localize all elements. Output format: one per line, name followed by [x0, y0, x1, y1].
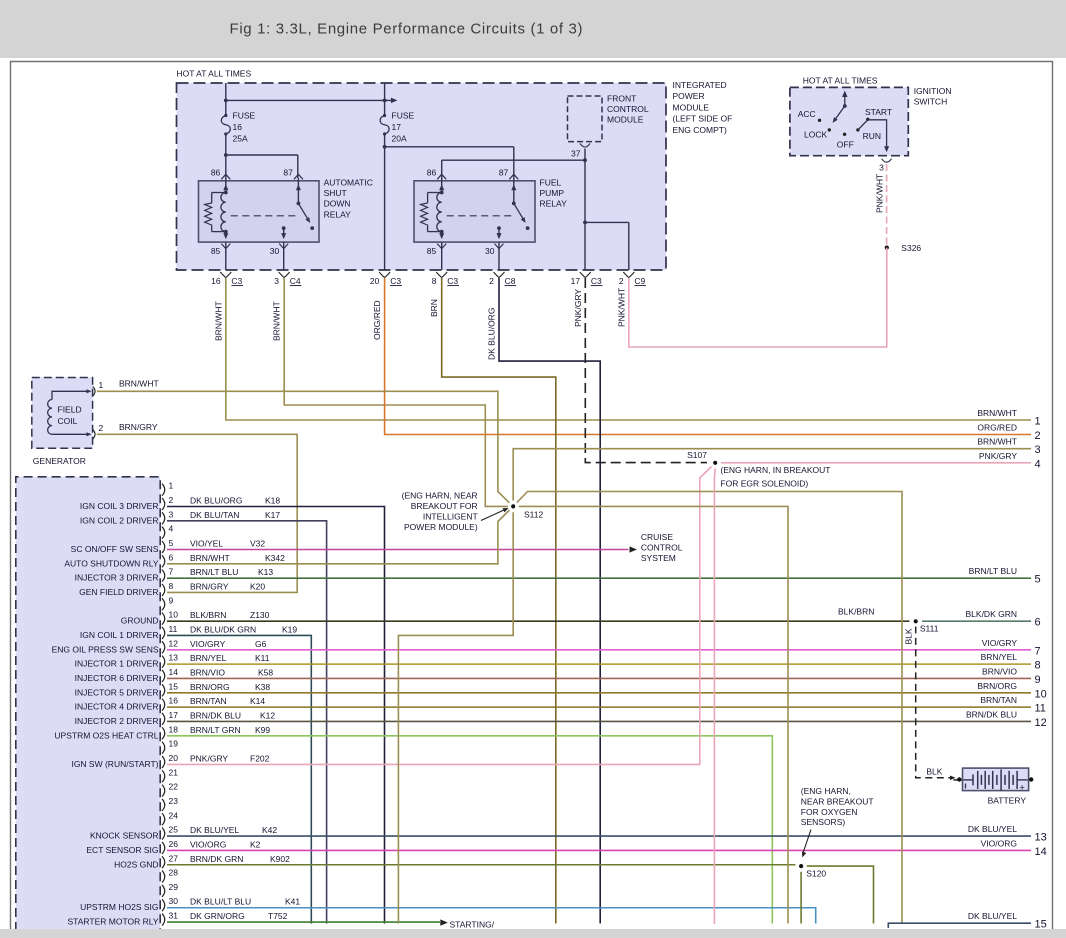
svg-text:K17: K17 [265, 510, 280, 520]
svg-text:ENG COMPT): ENG COMPT) [673, 125, 727, 135]
wire BRN/YEL PCM pin 13 to right edge row 8 [167, 663, 1031, 665]
svg-text:BRN/WHT: BRN/WHT [213, 301, 223, 341]
svg-text:7: 7 [169, 567, 174, 577]
svg-text:15: 15 [1035, 919, 1047, 931]
IPM pin 2 C8 [494, 272, 500, 278]
splice S120 [796, 861, 807, 872]
svg-text:15: 15 [169, 681, 179, 691]
svg-text:DK GRN/ORG: DK GRN/ORG [190, 911, 245, 921]
svg-text:14: 14 [169, 667, 179, 677]
wire S112 south branch down off page [398, 512, 513, 923]
svg-text:V32: V32 [250, 538, 265, 548]
svg-text:5: 5 [1035, 574, 1041, 586]
svg-text:4: 4 [1035, 458, 1041, 470]
svg-text:MODULE: MODULE [607, 115, 644, 125]
svg-text:Fig 1: 3.3L, Engine Performanc: Fig 1: 3.3L, Engine Performance Circuits… [230, 21, 584, 38]
wire VIO/GRY PCM pin 12 to right edge row 7 [167, 649, 1031, 651]
fuse 17 20A [383, 114, 386, 117]
svg-text:C3: C3 [231, 276, 242, 286]
svg-text:CONTROL: CONTROL [641, 543, 683, 553]
svg-text:FUSE: FUSE [233, 111, 256, 121]
header bar [0, 0, 1066, 58]
svg-text:GEN FIELD DRIVER: GEN FIELD DRIVER [79, 587, 158, 597]
svg-text:8: 8 [1035, 660, 1041, 672]
svg-text:25: 25 [169, 825, 179, 835]
PCM pin 5 [162, 541, 165, 553]
wire BLK/BRN PCM pin 10 to S111 [167, 620, 910, 622]
svg-text:AUTOMATIC: AUTOMATIC [324, 178, 373, 188]
wire S112 east branch down off page [519, 506, 788, 923]
powertrain control module box [16, 477, 160, 938]
svg-text:COIL: COIL [58, 416, 78, 426]
IPM pin 2 C9 [623, 272, 629, 278]
svg-text:16: 16 [211, 276, 221, 286]
svg-text:K41: K41 [285, 897, 300, 907]
wire BRN/ORG PCM pin 15 to right edge row 10 [167, 692, 1031, 694]
wire BRN/GRY generator pin 2 to PCM pin 8 [97, 434, 297, 592]
wire BRN/VIO PCM pin 14 to right edge row 9 [167, 677, 1031, 679]
wire BRN/DK BLU PCM pin 17 to right edge row 12 [167, 720, 1031, 722]
svg-text:BRN/TAN: BRN/TAN [190, 696, 227, 706]
svg-text:BRN/WHT: BRN/WHT [977, 408, 1017, 418]
svg-text:23: 23 [169, 796, 179, 806]
svg-text:2: 2 [619, 276, 624, 286]
PCM pin 11 [162, 627, 165, 639]
wire VIO/ORG PCM pin 26 to right edge row 14 [167, 849, 1031, 851]
ignition feed arrow [844, 94, 846, 106]
wire DK BLU/ORG from IPM 2 C8 down off page [499, 278, 600, 924]
svg-text:RELAY: RELAY [540, 199, 568, 209]
PCM pin 8 [162, 584, 165, 596]
svg-text:BRN/GRY: BRN/GRY [119, 422, 158, 432]
splice S107 [710, 458, 721, 469]
svg-text:LOCK: LOCK [804, 129, 827, 139]
svg-text:3: 3 [1035, 444, 1041, 456]
branch fuse16 to ASD relay 87 [226, 154, 298, 156]
svg-text:STARTING/: STARTING/ [450, 920, 495, 930]
svg-text:IGNITION: IGNITION [914, 86, 952, 96]
svg-text:SWITCH: SWITCH [914, 97, 948, 107]
svg-text:INJECTOR 2 DRIVER: INJECTOR 2 DRIVER [75, 716, 159, 726]
svg-text:INJECTOR 4 DRIVER: INJECTOR 4 DRIVER [75, 702, 159, 712]
wire BRN/WHT PCM pin 6 to S112 [167, 508, 512, 564]
svg-text:BRN/DK GRN: BRN/DK GRN [190, 854, 243, 864]
svg-text:85: 85 [211, 246, 221, 256]
svg-text:BRN/DK BLU: BRN/DK BLU [190, 710, 241, 720]
wire BRN/DK GRN PCM pin 27 to S120 [167, 864, 796, 866]
svg-text:S120: S120 [806, 868, 826, 878]
svg-text:19: 19 [169, 739, 179, 749]
wire S112 up to right edge row 3 [513, 449, 1031, 501]
ACC position [818, 119, 821, 122]
RUN position [856, 128, 859, 131]
IPM feed wire to fuse 17 [384, 83, 386, 116]
PCM pin 13 [162, 656, 165, 668]
svg-text:2: 2 [99, 423, 104, 433]
svg-text:IGN SW (RUN/START): IGN SW (RUN/START) [71, 759, 158, 769]
svg-text:28: 28 [169, 868, 179, 878]
PCM pin 28 [162, 871, 165, 883]
IPM pin 8 C3 [436, 272, 442, 278]
svg-text:8: 8 [169, 581, 174, 591]
PCM pin 4 [162, 527, 165, 539]
svg-text:K13: K13 [258, 567, 273, 577]
splice S326 [885, 246, 889, 250]
svg-text:IGN COIL 2 DRIVER: IGN COIL 2 DRIVER [80, 515, 159, 525]
svg-text:FOR OXYGEN: FOR OXYGEN [801, 807, 858, 817]
wire BRN/LT BLU PCM pin 7 to right edge row 5 [167, 577, 1031, 579]
svg-text:13: 13 [1035, 832, 1047, 844]
svg-text:BRN/ORG: BRN/ORG [190, 682, 230, 692]
svg-text:K42: K42 [262, 825, 277, 835]
svg-text:MODULE: MODULE [673, 102, 710, 112]
svg-text:(LEFT SIDE OF: (LEFT SIDE OF [673, 114, 733, 124]
wire DK BLU/YEL PCM pin 25 to right edge row 13 [167, 835, 1031, 837]
svg-text:ORG/RED: ORG/RED [977, 423, 1017, 433]
svg-text:BRN/VIO: BRN/VIO [982, 666, 1017, 676]
svg-text:GENERATOR: GENERATOR [33, 456, 86, 466]
svg-text:86: 86 [211, 168, 221, 178]
svg-text:8: 8 [432, 276, 437, 286]
svg-text:ACC: ACC [798, 109, 816, 119]
svg-text:KNOCK SENSOR: KNOCK SENSOR [90, 831, 159, 841]
svg-text:AUTO SHUTDOWN RLY: AUTO SHUTDOWN RLY [64, 558, 158, 568]
svg-text:S326: S326 [901, 243, 921, 253]
svg-text:FIELD: FIELD [58, 405, 82, 415]
svg-text:K902: K902 [270, 854, 290, 864]
svg-text:BRN/YEL: BRN/YEL [190, 653, 227, 663]
wire PNK/GRY S107 south branch down off page [713, 469, 716, 925]
svg-text:2: 2 [1035, 430, 1041, 442]
PCM pin 29 [162, 885, 165, 897]
wire fuse17 down to pin 20 C3 [384, 134, 386, 270]
svg-text:BATTERY: BATTERY [988, 796, 1027, 806]
svg-text:27: 27 [169, 853, 179, 863]
svg-text:C3: C3 [390, 276, 401, 286]
svg-text:29: 29 [169, 882, 179, 892]
svg-text:BLK: BLK [926, 767, 942, 777]
svg-text:K14: K14 [250, 696, 265, 706]
svg-text:9: 9 [1035, 674, 1041, 686]
svg-text:UPSTRM O2S HEAT CTRL: UPSTRM O2S HEAT CTRL [54, 730, 158, 740]
svg-text:BLK: BLK [904, 628, 914, 644]
ignition pin 3 [882, 159, 892, 163]
svg-text:25A: 25A [233, 134, 248, 144]
svg-text:(ENG HARN,: (ENG HARN, [801, 786, 851, 796]
svg-text:37: 37 [571, 149, 581, 159]
automatic shut down relay [199, 181, 320, 242]
svg-text:ENG OIL PRESS SW SENS: ENG OIL PRESS SW SENS [52, 644, 159, 654]
wire BRN/WHT generator pin 1 to S112 [97, 391, 512, 505]
svg-text:BLK/BRN: BLK/BRN [190, 610, 226, 620]
wire BLK/DK GRN S111 to right edge row 6 [922, 620, 1031, 622]
PCM pin 19 [162, 742, 165, 754]
svg-text:16: 16 [233, 122, 243, 132]
svg-text:31: 31 [169, 911, 179, 921]
svg-text:PNK/WHT: PNK/WHT [875, 174, 885, 213]
PCM pin 1 [162, 484, 165, 496]
svg-text:INJECTOR 1 DRIVER: INJECTOR 1 DRIVER [75, 659, 159, 669]
PCM pin 20 [162, 756, 165, 768]
PCM pin 3 [162, 512, 165, 524]
svg-text:DOWN: DOWN [324, 199, 351, 209]
svg-text:G6: G6 [255, 639, 267, 649]
svg-text:IGN COIL 1 DRIVER: IGN COIL 1 DRIVER [80, 630, 159, 640]
svg-text:HOT AT ALL TIMES: HOT AT ALL TIMES [803, 76, 878, 86]
PCM pin 6 [162, 555, 165, 567]
svg-text:F202: F202 [250, 753, 270, 763]
svg-text:FRONT: FRONT [607, 94, 636, 104]
FCM pin 37 [580, 144, 590, 148]
wire FCM 37 down to pin 17 C3 [584, 149, 586, 271]
svg-text:POWER: POWER [673, 91, 705, 101]
svg-text:DK BLU/ORG: DK BLU/ORG [487, 308, 497, 360]
svg-text:C4: C4 [290, 276, 301, 286]
svg-text:NEAR BREAKOUT: NEAR BREAKOUT [801, 796, 874, 806]
svg-text:12: 12 [169, 638, 179, 648]
svg-text:IGN COIL 3 DRIVER: IGN COIL 3 DRIVER [80, 501, 159, 511]
PCM pin 14 [162, 670, 165, 682]
wire ORG/RED from IPM 20 C3 to right edge row 2 [385, 278, 1031, 435]
wire START to pin 3 [858, 120, 887, 150]
PCM pin 31 [162, 914, 165, 926]
svg-text:30: 30 [169, 896, 179, 906]
wire DK BLU/DK GRN PCM pin 11 down off page [167, 635, 311, 923]
generator box [32, 378, 93, 449]
ignition switch blade LOCK [834, 106, 845, 121]
svg-text:13: 13 [169, 653, 179, 663]
svg-text:BRN/LT BLU: BRN/LT BLU [969, 566, 1017, 576]
svg-text:22: 22 [169, 782, 179, 792]
svg-text:RELAY: RELAY [324, 209, 352, 219]
PCM pin 17 [162, 713, 165, 725]
wire BRN from IPM 8 C3 down off page [442, 278, 556, 924]
svg-text:FUEL: FUEL [540, 178, 562, 188]
svg-text:K38: K38 [255, 682, 270, 692]
svg-text:DK BLU/YEL: DK BLU/YEL [968, 911, 1017, 921]
svg-text:BRN/ORG: BRN/ORG [977, 681, 1017, 691]
IPM pin 3 C4 [279, 272, 285, 278]
svg-text:GROUND: GROUND [121, 616, 159, 626]
PCM pin 10 [162, 613, 165, 625]
svg-text:14: 14 [1035, 846, 1047, 858]
START position [866, 118, 869, 121]
svg-text:20: 20 [169, 753, 179, 763]
svg-text:21: 21 [169, 767, 179, 777]
svg-text:(ENG HARN, IN BREAKOUT: (ENG HARN, IN BREAKOUT [720, 465, 830, 475]
fuse 16 25A [224, 114, 227, 117]
svg-text:11: 11 [1035, 703, 1046, 715]
svg-text:BLK/DK GRN: BLK/DK GRN [966, 609, 1018, 619]
LOCK position [828, 128, 831, 131]
svg-text:INJECTOR 3 DRIVER: INJECTOR 3 DRIVER [75, 573, 159, 583]
PCM pin 30 [162, 899, 165, 911]
svg-text:1: 1 [1035, 416, 1041, 428]
PCM pin 21 [162, 770, 165, 782]
branch 37 wire to fuel pump relay 86 [442, 159, 585, 161]
svg-text:INTEGRATED: INTEGRATED [673, 80, 727, 90]
wire DK GRN/ORG PCM pin 31 to STARTING system [167, 921, 440, 923]
svg-text:HOT AT ALL TIMES: HOT AT ALL TIMES [177, 69, 252, 79]
field coil [48, 400, 52, 435]
wire PNK/GRY from IPM 17 C3 to S107 (dashed) [585, 278, 707, 463]
svg-text:T752: T752 [268, 911, 288, 921]
svg-text:CRUISE: CRUISE [641, 532, 673, 542]
svg-text:18: 18 [169, 724, 179, 734]
svg-text:10: 10 [1035, 688, 1047, 700]
wire BRN/WHT from IPM 3 C4 to S112 [284, 278, 508, 506]
svg-text:85: 85 [427, 246, 437, 256]
svg-text:HO2S GND: HO2S GND [114, 859, 158, 869]
svg-text:3: 3 [274, 276, 279, 286]
svg-text:ORG/RED: ORG/RED [372, 300, 382, 340]
svg-text:BRN/GRY: BRN/GRY [190, 581, 229, 591]
generator pin 2 [52, 433, 87, 435]
IPM bus wire with arrow [226, 99, 385, 101]
svg-text:(ENG HARN, NEAR: (ENG HARN, NEAR [402, 490, 478, 500]
svg-text:3: 3 [879, 163, 884, 173]
bottom gray bar [0, 929, 1066, 938]
svg-text:BRN/VIO: BRN/VIO [190, 667, 225, 677]
svg-text:PNK/GRY: PNK/GRY [979, 451, 1017, 461]
svg-text:BRN/YEL: BRN/YEL [981, 652, 1018, 662]
svg-text:FOR EGR SOLENOID): FOR EGR SOLENOID) [720, 478, 808, 488]
branch fuse17 to fuel pump relay 87 [385, 146, 514, 148]
svg-text:1: 1 [169, 481, 174, 491]
PCM pin 22 [162, 785, 165, 797]
svg-text:11: 11 [169, 624, 178, 634]
svg-text:OFF: OFF [837, 140, 854, 150]
fuel pump relay [414, 181, 535, 242]
svg-text:K12: K12 [260, 710, 275, 720]
svg-text:17: 17 [392, 122, 402, 132]
PCM pin 24 [162, 813, 165, 825]
svg-text:ECT SENSOR SIG: ECT SENSOR SIG [86, 845, 158, 855]
svg-text:DK BLU/DK GRN: DK BLU/DK GRN [190, 624, 256, 634]
svg-text:C9: C9 [634, 276, 645, 286]
wire BRN/WHT from IPM 16 C3 to right edge row 1 [226, 278, 1031, 420]
wire DK BLU/LT BLU PCM pin 30 down off page [167, 908, 816, 924]
svg-text:1: 1 [99, 380, 104, 390]
svg-text:PNK/WHT: PNK/WHT [617, 288, 627, 327]
svg-text:17: 17 [169, 710, 179, 720]
PCM pin 27 [162, 856, 165, 868]
svg-text:START: START [865, 107, 892, 117]
svg-text:DK BLU/YEL: DK BLU/YEL [190, 825, 239, 835]
generator pin 1 [52, 391, 88, 399]
svg-text:BRN/WHT: BRN/WHT [119, 378, 159, 388]
svg-text:BRN/LT BLU: BRN/LT BLU [190, 567, 238, 577]
svg-text:BREAKOUT FOR: BREAKOUT FOR [411, 501, 478, 511]
svg-text:DK BLU/ORG: DK BLU/ORG [190, 496, 242, 506]
wire PNK/WHT ignition pin 3 to S326 (dashed) [886, 164, 888, 248]
svg-text:DK BLU/TAN: DK BLU/TAN [190, 510, 239, 520]
IPM pin 17 C3 [580, 272, 586, 278]
splice S111 [910, 616, 921, 627]
svg-text:87: 87 [499, 168, 509, 178]
wire S112 northeast branch down off page [515, 492, 902, 924]
PCM pin 26 [162, 842, 165, 854]
svg-text:UPSTRM HO2S SIG: UPSTRM HO2S SIG [80, 902, 158, 912]
IPM feed wire to fuse 16 [225, 83, 227, 116]
PCM pin 25 [162, 828, 165, 840]
PCM pin 15 [162, 684, 165, 696]
front control module box [568, 96, 603, 142]
ignition switch box [790, 87, 908, 155]
PCM pin 7 [162, 570, 165, 582]
PCM pin 2 [162, 498, 165, 510]
splice S112 [508, 501, 519, 512]
svg-text:7: 7 [1035, 645, 1041, 657]
svg-text:9: 9 [169, 595, 174, 605]
branch 37 wire to pin 2 C9 [585, 221, 629, 223]
svg-text:K20: K20 [250, 581, 265, 591]
svg-text:26: 26 [169, 839, 179, 849]
svg-text:VIO/GRY: VIO/GRY [190, 639, 226, 649]
svg-text:2: 2 [489, 276, 494, 286]
svg-text:86: 86 [427, 168, 437, 178]
svg-text:FUSE: FUSE [392, 111, 415, 121]
svg-text:Z130: Z130 [250, 610, 270, 620]
wire PNK/GRY PCM pin 20 to S107 [167, 465, 714, 765]
wire BRN/TAN PCM pin 16 to right edge row 11 [167, 706, 1031, 708]
svg-text:S112: S112 [524, 510, 543, 520]
wire fuse16 to ASD relay 86 [225, 134, 227, 178]
svg-text:K19: K19 [282, 624, 297, 634]
wire PNK/GRY S107 to right edge row 4 [721, 462, 1031, 464]
svg-text:PNK/GRY: PNK/GRY [190, 753, 228, 763]
PCM pin 9 [162, 598, 165, 610]
IPM pin 20 C3 [379, 272, 385, 278]
wire S120 east branch down off page [807, 866, 874, 923]
svg-text:C3: C3 [591, 276, 602, 286]
svg-text:RUN: RUN [863, 131, 881, 141]
svg-text:BRN/DK BLU: BRN/DK BLU [966, 709, 1017, 719]
wire DK BLU/YEL row 15 from off page [888, 923, 1031, 928]
svg-text:DK BLU/LT BLU: DK BLU/LT BLU [190, 897, 251, 907]
OFF position [843, 133, 846, 136]
wire DK BLU/TAN PCM pin 3 down off page [167, 521, 327, 924]
svg-text:SC ON/OFF SW SENS: SC ON/OFF SW SENS [71, 544, 159, 554]
PCM pin 23 [162, 799, 165, 811]
svg-text:VIO/GRY: VIO/GRY [982, 638, 1018, 648]
PCM pin 16 [162, 699, 165, 711]
svg-text:K342: K342 [265, 553, 285, 563]
svg-text:INTELLIGENT: INTELLIGENT [423, 511, 478, 521]
integrated power module box [177, 83, 667, 270]
wire DK BLU/ORG PCM pin 2 down off page [167, 507, 385, 924]
svg-text:6: 6 [169, 552, 174, 562]
svg-text:5: 5 [169, 538, 174, 548]
battery [953, 779, 962, 781]
svg-text:K58: K58 [258, 667, 273, 677]
svg-text:4: 4 [169, 524, 174, 534]
svg-text:S111: S111 [920, 624, 939, 634]
svg-text:VIO/YEL: VIO/YEL [190, 538, 223, 548]
svg-text:20A: 20A [392, 134, 407, 144]
svg-text:INJECTOR 6 DRIVER: INJECTOR 6 DRIVER [75, 673, 159, 683]
svg-text:SENSORS): SENSORS) [801, 817, 846, 827]
PCM pin 18 [162, 727, 165, 739]
svg-text:6: 6 [1035, 617, 1041, 629]
svg-text:10: 10 [169, 610, 179, 620]
svg-text:POWER MODULE): POWER MODULE) [404, 522, 478, 532]
svg-text:3: 3 [169, 509, 174, 519]
svg-text:12: 12 [1035, 717, 1047, 729]
svg-text:+: + [1020, 782, 1025, 792]
wire VIO/YEL PCM pin 5 to cruise control system [167, 548, 629, 550]
wire BRN/LT GRN PCM pin 18 down off page [167, 736, 772, 924]
